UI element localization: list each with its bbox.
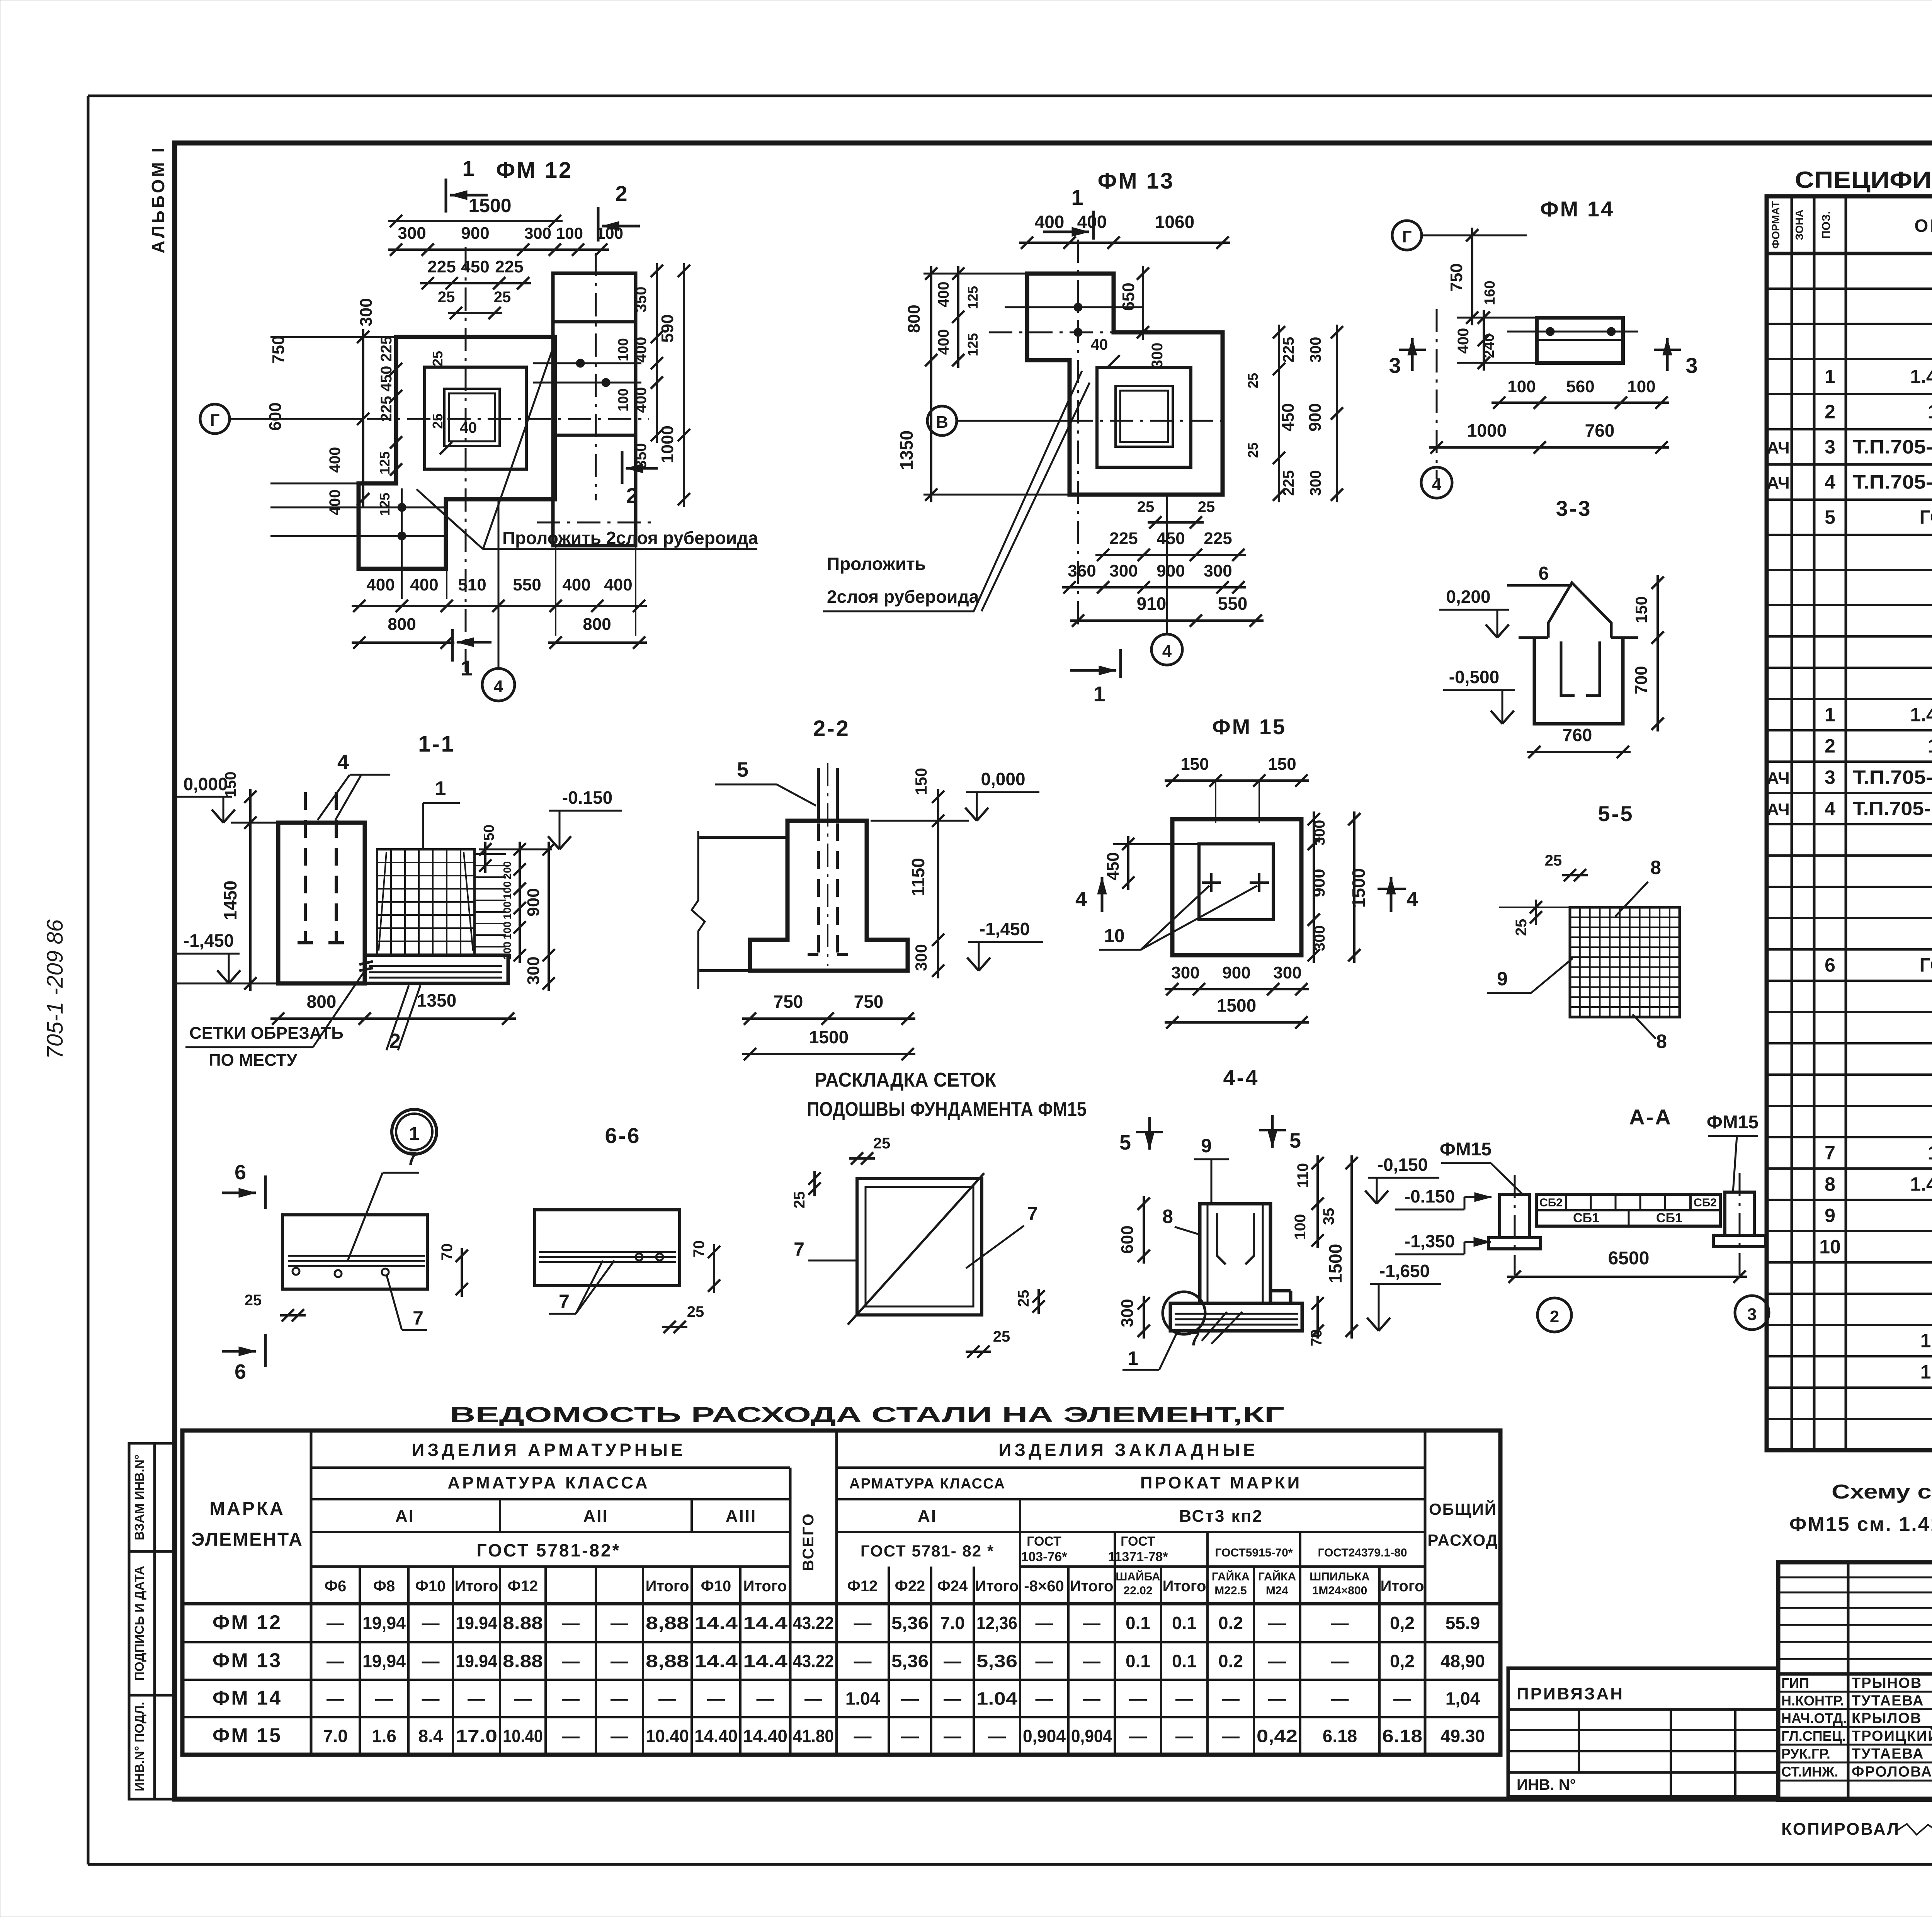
svg-text:Проложить 2слоя рубероида: Проложить 2слоя рубероида [502, 528, 758, 548]
svg-text:0,2: 0,2 [1390, 1651, 1415, 1671]
levels A-A [1395, 1186, 1492, 1254]
svg-text:ГОСТ5915-70*: ГОСТ5915-70* [1215, 1546, 1293, 1559]
svg-text:225: 225 [495, 257, 523, 276]
svg-text:ПРОКАТ МАРКИ: ПРОКАТ МАРКИ [1140, 1473, 1302, 1492]
dim 160-400-240 FM14 [1455, 281, 1538, 371]
svg-text:5,36: 5,36 [891, 1651, 929, 1671]
labels 5-5 [1487, 852, 1667, 1052]
svg-text:6: 6 [1825, 954, 1835, 976]
margin inventory number [43, 919, 68, 1059]
svg-text:—: — [1129, 1726, 1147, 1746]
detail circle 4-4 [1163, 1292, 1205, 1334]
svg-text:1000: 1000 [658, 425, 677, 463]
svg-text:ТРЫНОВ: ТРЫНОВ [1852, 1675, 1922, 1691]
svg-text:—: — [1175, 1726, 1193, 1746]
svg-text:СПЕЦИФИКАЦИЯ ФУНДАМЕНТОВ ФМ: СПЕЦИФИКАЦИЯ ФУНДАМЕНТОВ ФМ12 ... ФМ15 [1795, 167, 1932, 193]
svg-text:—: — [1331, 1689, 1349, 1709]
dim 900 300 1-1 [524, 842, 555, 991]
svg-text:—: — [988, 1726, 1006, 1746]
detail circle 1 [392, 1109, 437, 1154]
section mark 1 top FM13 [1043, 185, 1094, 240]
svg-text:300: 300 [1171, 963, 1199, 982]
svg-text:3: 3 [1685, 353, 1697, 378]
svg-text:6.18: 6.18 [1382, 1726, 1422, 1746]
svg-text:900: 900 [524, 888, 543, 916]
svg-text:1.412-1/77-В.3-100: 1.412-1/77-В.3-100 [1910, 1174, 1932, 1195]
svg-text:25: 25 [438, 289, 455, 306]
svg-text:10.40: 10.40 [503, 1726, 543, 1746]
album label [148, 145, 168, 253]
svg-text:1.410-3. вып.1: 1.410-3. вып.1 [1928, 735, 1932, 757]
svg-text:АЧ: АЧ [1767, 769, 1789, 788]
svg-text:400: 400 [633, 337, 650, 363]
title FM15 [1212, 714, 1286, 739]
svg-text:150: 150 [1632, 596, 1650, 623]
foundation plan FM13 outline [989, 168, 1223, 495]
svg-text:910: 910 [1137, 594, 1167, 614]
svg-text:—: — [562, 1689, 580, 1709]
svg-text:103-76*: 103-76* [1021, 1550, 1067, 1564]
svg-text:ГОСТ24379.1-80: ГОСТ24379.1-80 [1920, 507, 1932, 528]
svg-text:ГОСТ24379.1-80: ГОСТ24379.1-80 [1920, 954, 1932, 976]
svg-text:—: — [468, 1689, 485, 1709]
svg-text:АIII: АIII [726, 1507, 757, 1526]
svg-text:Ф24: Ф24 [937, 1578, 968, 1595]
svg-text:800: 800 [388, 615, 416, 634]
svg-text:АЧ: АЧ [1767, 474, 1789, 493]
svg-text:1,04: 1,04 [1446, 1689, 1480, 1709]
svg-text:—: — [854, 1613, 872, 1633]
dim 300-900-300-100-100 FM12 [388, 224, 623, 256]
dim 750 FM14 [1447, 228, 1478, 325]
title section A-A [1629, 1105, 1672, 1129]
svg-text:АII: АII [583, 1507, 608, 1526]
svg-text:1.6: 1.6 [372, 1726, 396, 1746]
svg-text:9: 9 [1201, 1135, 1212, 1157]
svg-text:150: 150 [1268, 755, 1296, 774]
svg-text:14.40: 14.40 [694, 1726, 738, 1746]
section mark 2 bottom [622, 451, 658, 508]
svg-text:125: 125 [377, 451, 393, 475]
svg-text:ГОСТ: ГОСТ [1121, 1534, 1155, 1549]
svg-text:0.1: 0.1 [1126, 1651, 1150, 1671]
svg-text:ВСЕГО: ВСЕГО [800, 1512, 817, 1571]
svg-text:—: — [514, 1689, 532, 1709]
svg-text:1150: 1150 [908, 858, 928, 896]
svg-text:12,36: 12,36 [976, 1613, 1017, 1633]
label 1 4-4 [1122, 1329, 1179, 1370]
svg-text:9: 9 [1497, 968, 1508, 990]
dim 150 1-1 [222, 772, 257, 830]
svg-text:125: 125 [377, 493, 393, 516]
svg-text:14.4: 14.4 [743, 1651, 788, 1671]
svg-text:1500: 1500 [1325, 1244, 1345, 1283]
section mark 1 bottom FM13 [1070, 649, 1121, 706]
level -0.150 1-1 [479, 788, 622, 849]
svg-text:9: 9 [1825, 1205, 1835, 1226]
svg-text:1500: 1500 [468, 195, 511, 216]
svg-text:25: 25 [1198, 498, 1215, 515]
svg-text:25: 25 [1137, 498, 1155, 515]
labels 6-6 right [549, 1240, 720, 1333]
svg-text:40: 40 [460, 419, 477, 436]
section mark 2 top [598, 181, 640, 242]
svg-text:ФМ 13: ФМ 13 [1098, 168, 1174, 194]
svg-text:ГОСТ 5781- 82 *: ГОСТ 5781- 82 * [861, 1542, 994, 1560]
axis circle 4 FM14 [1421, 467, 1452, 498]
svg-text:110: 110 [1294, 1163, 1311, 1188]
svg-text:—: — [611, 1726, 628, 1746]
svg-text:Проложить: Проложить [827, 554, 926, 574]
svg-text:225: 225 [1280, 337, 1297, 363]
svg-text:—: — [562, 1726, 580, 1746]
svg-text:360: 360 [1068, 561, 1096, 580]
svg-text:1.04: 1.04 [976, 1689, 1017, 1709]
svg-text:400: 400 [327, 490, 344, 515]
dim 400-400-510-550-400-400 FM12 [352, 488, 647, 636]
axis marker V circle [927, 406, 1225, 435]
svg-text:1.412-1/77-В.3-020: 1.412-1/77-В.3-020 [1910, 366, 1932, 388]
svg-text:2слоя рубероида: 2слоя рубероида [827, 587, 979, 607]
svg-text:300: 300 [398, 224, 426, 243]
svg-text:5,36: 5,36 [891, 1613, 929, 1633]
svg-text:150: 150 [222, 772, 239, 798]
svg-text:Ф12: Ф12 [508, 1578, 538, 1595]
svg-text:40: 40 [1091, 336, 1108, 353]
svg-text:50: 50 [481, 825, 497, 841]
axis line FM14 [1436, 309, 1438, 479]
dim 1500 FM12 [388, 195, 563, 227]
svg-text:25: 25 [993, 1328, 1010, 1345]
svg-text:400: 400 [1035, 212, 1065, 232]
svg-text:1.412.1-4.080-01: 1.412.1-4.080-01 [1920, 1330, 1932, 1352]
svg-text:10: 10 [1819, 1236, 1841, 1258]
dim right col FM13 [1245, 325, 1343, 502]
svg-text:4: 4 [1075, 888, 1087, 911]
hatch right of mesh [474, 854, 506, 947]
svg-text:-8×60: -8×60 [1024, 1578, 1064, 1595]
svg-text:ФОРМАТ: ФОРМАТ [1770, 201, 1782, 248]
svg-text:7: 7 [559, 1291, 570, 1312]
note ruberoid FM13 [823, 371, 1090, 611]
svg-text:—: — [1268, 1651, 1286, 1671]
svg-text:2: 2 [1550, 1307, 1559, 1326]
svg-text:-0.150: -0.150 [1405, 1186, 1455, 1206]
svg-text:300: 300 [1307, 337, 1324, 363]
dim 400-400-1060 FM13 [1019, 212, 1230, 249]
drawing frame [175, 143, 1932, 1799]
svg-text:2: 2 [1825, 735, 1835, 757]
dim 150-150 FM15 [1165, 755, 1309, 823]
svg-text:0.1: 0.1 [1172, 1651, 1197, 1671]
level 0.000 1-1 [176, 774, 278, 823]
svg-text:4: 4 [1406, 888, 1418, 911]
dim col left FM12 c [327, 447, 393, 516]
svg-text:—: — [658, 1689, 676, 1709]
svg-text:—: — [327, 1651, 344, 1671]
svg-text:0,200: 0,200 [1446, 587, 1490, 607]
svg-text:РАСКЛАДКА СЕТОК: РАСКЛАДКА СЕТОК [815, 1069, 996, 1091]
dim col left FM12 a [266, 298, 376, 430]
dims right FM15 [1308, 811, 1369, 963]
svg-text:—: — [757, 1689, 774, 1709]
svg-text:ИНВ.N° ПОДЛ.: ИНВ.N° ПОДЛ. [132, 1702, 146, 1791]
svg-text:М22.5: М22.5 [1214, 1584, 1247, 1597]
svg-text:1350: 1350 [896, 430, 917, 470]
svg-text:—: — [944, 1651, 961, 1671]
axis line vertical FM12 [465, 247, 467, 672]
svg-text:4: 4 [337, 750, 349, 774]
svg-text:Итого: Итого [975, 1578, 1019, 1595]
svg-text:—: — [901, 1689, 919, 1709]
svg-text:900: 900 [461, 224, 489, 243]
svg-text:В: В [936, 413, 948, 432]
svg-text:Схему сборки пространственно: Схему сборки пространственного каркаса ф… [1832, 1481, 1932, 1503]
svg-text:1500: 1500 [1349, 868, 1369, 908]
svg-text:ФМ15: ФМ15 [1440, 1139, 1492, 1160]
section 5-5 mesh [1570, 907, 1680, 1017]
svg-text:0,904: 0,904 [1071, 1726, 1112, 1746]
svg-text:25: 25 [494, 289, 511, 306]
svg-text:1: 1 [1825, 704, 1835, 726]
svg-text:25: 25 [1245, 373, 1261, 388]
svg-text:800: 800 [905, 304, 923, 333]
axis line vertical FM13 [1077, 240, 1079, 630]
svg-text:ВСт3 кп2: ВСт3 кп2 [1179, 1507, 1263, 1526]
svg-text:5: 5 [737, 758, 748, 781]
svg-text:7: 7 [406, 1148, 417, 1169]
svg-text:705-1 -209 86: 705-1 -209 86 [43, 919, 68, 1059]
title FM14 [1540, 197, 1614, 221]
svg-text:8.4: 8.4 [418, 1726, 443, 1746]
svg-text:0.1: 0.1 [1126, 1613, 1150, 1633]
label 4 leaders [318, 750, 390, 820]
svg-text:590: 590 [658, 314, 677, 342]
level -0.500 [1443, 667, 1515, 724]
svg-text:55.9: 55.9 [1446, 1613, 1480, 1633]
svg-text:2: 2 [626, 483, 638, 508]
dim 6500 A-A [1507, 1248, 1747, 1283]
svg-text:ГЛ.СПЕЦ.: ГЛ.СПЕЦ. [1781, 1728, 1846, 1744]
svg-text:70: 70 [439, 1243, 456, 1261]
axis marker G circle [200, 404, 649, 434]
title section 2-2 [813, 716, 850, 741]
svg-text:3: 3 [1389, 353, 1401, 378]
section mark 3 left [1389, 338, 1426, 378]
svg-text:ТУТАЕВА: ТУТАЕВА [1852, 1746, 1924, 1762]
dim lines right FM12 [651, 263, 690, 507]
dim 750-750 2-2 [742, 992, 915, 1025]
svg-text:8: 8 [1656, 1031, 1667, 1052]
svg-text:6500: 6500 [1608, 1248, 1650, 1269]
svg-text:760: 760 [1563, 725, 1592, 745]
svg-text:750: 750 [1447, 263, 1466, 291]
label 1 mark 1-1 [423, 777, 460, 848]
svg-text:4: 4 [1825, 798, 1835, 820]
svg-text:25: 25 [1015, 1290, 1032, 1307]
dim 650 FM13 [1119, 266, 1149, 340]
svg-text:М24: М24 [1266, 1584, 1289, 1597]
svg-text:6-6: 6-6 [605, 1123, 641, 1148]
title block signatures [1781, 1675, 1932, 1780]
svg-text:11371-78*: 11371-78* [1108, 1550, 1168, 1564]
svg-text:560: 560 [1566, 377, 1594, 396]
svg-text:200: 200 [501, 942, 513, 960]
svg-text:АЛЬБОМ I: АЛЬБОМ I [148, 145, 168, 253]
svg-text:300: 300 [1273, 963, 1301, 982]
svg-text:—: — [422, 1689, 440, 1709]
dim 600 4-4 [1118, 1196, 1150, 1264]
svg-text:Итого: Итого [646, 1578, 689, 1595]
axis marker G circle FM14 [1392, 221, 1527, 250]
dim 300 4-4 [1118, 1296, 1150, 1339]
svg-text:—: — [375, 1689, 393, 1709]
leader 40 FM12 [440, 419, 477, 454]
svg-text:225: 225 [1109, 529, 1138, 548]
svg-text:25: 25 [1545, 852, 1562, 869]
svg-text:0.2: 0.2 [1218, 1651, 1243, 1671]
svg-text:—: — [1331, 1613, 1349, 1633]
steel table header texts [191, 1440, 1498, 1597]
svg-text:1: 1 [461, 656, 473, 680]
svg-text:300: 300 [1149, 343, 1166, 369]
svg-text:—: — [1222, 1726, 1240, 1746]
svg-text:150: 150 [1180, 755, 1209, 774]
svg-text:400: 400 [366, 575, 395, 594]
axis 2-2 cut line [595, 253, 597, 500]
view 6-6 right [535, 1210, 680, 1286]
steel table title [450, 1402, 1284, 1427]
svg-text:ГИП: ГИП [1781, 1675, 1809, 1691]
svg-text:—: — [944, 1726, 961, 1746]
svg-text:—: — [1268, 1613, 1286, 1633]
svg-text:1.412.1-4.080-02: 1.412.1-4.080-02 [1920, 1361, 1932, 1383]
svg-text:41.80: 41.80 [793, 1726, 834, 1746]
svg-text:ПОЗ.: ПОЗ. [1820, 211, 1833, 239]
svg-text:ФМ15 см. 1.412.1-4.070 схему: ФМ15 см. 1.412.1-4.070 схему 1. [1789, 1513, 1932, 1536]
svg-text:ОБЩИЙ: ОБЩИЙ [1429, 1500, 1497, 1518]
title section 1-1 [418, 731, 455, 757]
svg-text:125: 125 [965, 286, 981, 309]
dim 800-800 FM12 [352, 615, 647, 649]
section mark 1 top [446, 156, 488, 213]
labels mesh square [791, 1135, 1045, 1358]
svg-text:СБ1: СБ1 [1656, 1211, 1682, 1225]
svg-text:ФМ 14: ФМ 14 [1540, 197, 1614, 221]
specification table grid [1767, 196, 1932, 1450]
svg-text:ФМ15: ФМ15 [1707, 1112, 1759, 1133]
svg-text:5,36: 5,36 [976, 1651, 1017, 1671]
svg-text:48,90: 48,90 [1440, 1651, 1485, 1671]
svg-text:510: 510 [458, 575, 486, 594]
svg-text:450: 450 [1279, 403, 1298, 431]
svg-text:550: 550 [1218, 594, 1248, 614]
svg-text:ФМ 14: ФМ 14 [213, 1687, 282, 1709]
svg-text:НАЧ.ОТД.: НАЧ.ОТД. [1781, 1710, 1847, 1726]
svg-text:19,94: 19,94 [362, 1613, 406, 1633]
dim 1000-760 FM14 [1429, 420, 1669, 454]
plan FM14 outline [1507, 318, 1638, 363]
svg-text:7: 7 [1189, 1328, 1200, 1350]
svg-text:0,2: 0,2 [1390, 1613, 1415, 1633]
svg-text:8,88: 8,88 [646, 1613, 689, 1633]
svg-text:1.410-3. вып.1: 1.410-3. вып.1 [1928, 1142, 1932, 1164]
svg-text:Т.П.705-1-209.86 КЖ.И 07.СО: Т.П.705-1-209.86 КЖ.И 07.СО [1853, 798, 1932, 820]
svg-text:—: — [1036, 1613, 1053, 1633]
axis circle 4 below FM12 [482, 499, 515, 701]
privyazan block [1508, 1668, 1778, 1797]
svg-text:Итого: Итого [455, 1578, 498, 1595]
svg-text:4: 4 [1825, 471, 1835, 493]
title block grid [1778, 1562, 1932, 1800]
svg-text:СТ.ИНЖ.: СТ.ИНЖ. [1781, 1764, 1838, 1780]
svg-text:ОБОЗНАЧЕНИЕ: ОБОЗНАЧЕНИЕ [1914, 216, 1932, 236]
svg-text:225: 225 [378, 336, 395, 362]
svg-text:22.02: 22.02 [1123, 1584, 1152, 1597]
svg-text:25: 25 [873, 1135, 891, 1152]
svg-text:-1,450: -1,450 [184, 930, 234, 951]
svg-text:СБ1: СБ1 [1573, 1211, 1599, 1225]
section 2-2 profile [692, 821, 908, 989]
svg-text:5: 5 [1119, 1131, 1131, 1154]
svg-text:ФМ 12: ФМ 12 [496, 158, 573, 183]
section mark 6 top [222, 1161, 265, 1209]
svg-text:300: 300 [357, 298, 376, 326]
svg-text:7: 7 [413, 1307, 423, 1329]
svg-text:8: 8 [1650, 857, 1661, 878]
mesh layout square [848, 1173, 984, 1325]
svg-text:ИНВ. N°: ИНВ. N° [1517, 1776, 1576, 1793]
dim 225-450-225 FM12 [420, 257, 531, 289]
svg-text:0,42: 0,42 [1257, 1726, 1298, 1746]
svg-text:Г: Г [1402, 227, 1412, 246]
svg-text:1000: 1000 [1467, 420, 1507, 441]
svg-text:ФМ 12: ФМ 12 [213, 1611, 282, 1634]
dim lines left FM12 [270, 329, 402, 507]
svg-text:5: 5 [1289, 1129, 1301, 1152]
svg-text:0,000: 0,000 [183, 774, 228, 794]
svg-text:ПРИВЯЗАН: ПРИВЯЗАН [1517, 1684, 1624, 1703]
svg-text:-0.150: -0.150 [562, 788, 612, 808]
label FM15 right A-A [1707, 1112, 1759, 1192]
svg-text:—: — [611, 1651, 628, 1671]
svg-text:7.0: 7.0 [940, 1613, 965, 1633]
svg-text:650: 650 [1119, 282, 1138, 311]
svg-text:АЧ: АЧ [1767, 439, 1789, 458]
svg-text:Итого: Итого [1070, 1578, 1114, 1595]
specification row lines [1767, 289, 1932, 1419]
svg-text:—: — [944, 1689, 961, 1709]
svg-text:ИЗДЕЛИЯ ЗАКЛАДНЫЕ: ИЗДЕЛИЯ ЗАКЛАДНЫЕ [998, 1440, 1258, 1460]
svg-text:0.2: 0.2 [1218, 1613, 1243, 1633]
svg-text:70: 70 [690, 1240, 707, 1258]
svg-text:ВЕДОМОСТЬ РАСХОДА СТАЛИ: ВЕДОМОСТЬ РАСХОДА СТАЛИ НА ЭЛЕМЕНТ,КГ [450, 1402, 1284, 1427]
svg-text:1: 1 [1071, 185, 1083, 209]
svg-text:400: 400 [935, 329, 952, 355]
svg-text:750: 750 [774, 992, 803, 1012]
svg-text:25: 25 [1513, 919, 1530, 936]
svg-text:1.04: 1.04 [845, 1689, 880, 1709]
svg-text:1500: 1500 [809, 1027, 849, 1047]
dim 50 1-1 [479, 825, 497, 873]
dim col left FM12 b [378, 336, 446, 429]
section 2-2 anchor bolts [808, 763, 848, 966]
svg-text:1.410-3, вып.1: 1.410-3, вып.1 [1928, 401, 1932, 423]
dim 700 3-3 [1632, 630, 1664, 731]
svg-text:19,94: 19,94 [362, 1651, 406, 1671]
specification title [1795, 167, 1932, 193]
svg-text:8: 8 [1825, 1174, 1835, 1195]
